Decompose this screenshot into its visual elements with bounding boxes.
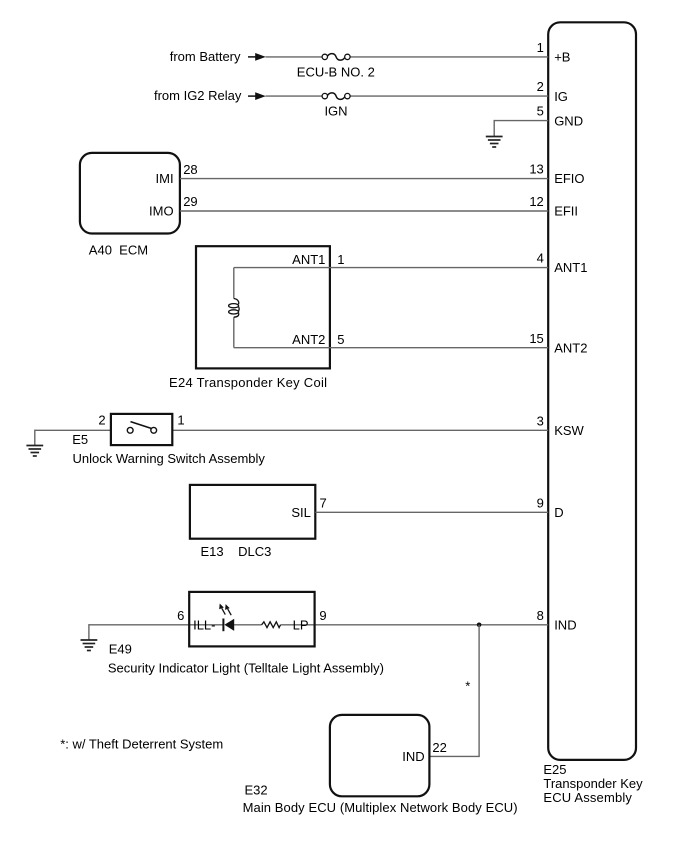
fuse IGN	[322, 93, 350, 100]
pin label KSW	[554, 423, 584, 438]
pin label IND	[554, 617, 576, 632]
footnote w/ Theft Deterrent System	[60, 736, 223, 751]
svg-text:IMO: IMO	[149, 204, 174, 219]
port label IMO	[149, 204, 174, 219]
ECM A40 box	[80, 153, 180, 234]
E13 DLC3 box	[190, 485, 315, 539]
wire SIL pin7 to D pin9	[315, 511, 548, 513]
svg-text:LP: LP	[293, 617, 309, 632]
svg-text:7: 7	[320, 496, 327, 511]
pin number 2	[537, 79, 544, 94]
note asterisk	[465, 679, 470, 694]
svg-text:+B: +B	[554, 50, 570, 65]
pin number 9	[537, 495, 544, 510]
svg-text:13: 13	[529, 162, 543, 177]
wire junction down to E32 IND pin22	[429, 625, 479, 757]
label from Battery	[170, 49, 241, 64]
pin label +B	[554, 50, 570, 65]
label E49	[109, 642, 132, 657]
pin number 12	[529, 194, 543, 209]
svg-text:from Battery: from Battery	[170, 49, 241, 64]
port label IND (E32)	[402, 749, 424, 764]
svg-text:EFIO: EFIO	[554, 171, 584, 186]
svg-text:1: 1	[177, 413, 184, 428]
svg-text:3: 3	[537, 413, 544, 428]
switch contacts	[127, 422, 156, 434]
svg-text:1: 1	[537, 40, 544, 55]
pin number 3	[537, 413, 544, 428]
pin number 5 (E24)	[337, 332, 344, 347]
pin label ANT2 (ECU)	[554, 340, 587, 355]
value label IGN	[324, 103, 347, 118]
wire switch pin1 to KSW pin3	[157, 429, 549, 431]
E32 Main Body ECU box	[330, 715, 430, 796]
svg-text:15: 15	[529, 331, 543, 346]
pin number 6	[177, 608, 184, 623]
svg-text:GND: GND	[554, 113, 583, 128]
svg-text:Transponder Key: Transponder Key	[543, 776, 643, 791]
junction node on IND wire	[477, 623, 482, 628]
label E32	[245, 783, 268, 798]
label Unlock Warning Switch Assembly	[73, 451, 266, 466]
pin label D	[554, 505, 563, 520]
pin number 4	[537, 251, 544, 266]
wire IMO pin29 to EFII pin12	[180, 210, 548, 212]
svg-text:Security Indicator Light (Tell: Security Indicator Light (Telltale Light…	[108, 660, 384, 675]
fuse ECU-B NO. 2	[322, 54, 350, 61]
label E13 DLC3	[201, 544, 272, 559]
ground GND	[486, 137, 503, 148]
pin number 1	[537, 40, 544, 55]
pin number 15	[529, 331, 543, 346]
wire from IG2 Relay to IG pin 2	[266, 95, 549, 97]
wire resistor to IND pin8	[281, 624, 549, 626]
ECU E25 Transponder Key ECU Assembly box	[548, 22, 636, 760]
svg-text:from IG2 Relay: from IG2 Relay	[154, 88, 242, 103]
wire GND pin 5 to ground	[494, 120, 548, 136]
E49 box	[189, 592, 314, 647]
svg-text:28: 28	[183, 162, 197, 177]
value label ECU-B NO. 2	[297, 64, 375, 79]
coil vertical wire	[233, 268, 235, 348]
pin label GND	[554, 113, 583, 128]
pin label IG	[554, 89, 568, 104]
pin number 1 (E5)	[177, 413, 184, 428]
svg-text:KSW: KSW	[554, 423, 584, 438]
pin number 8	[537, 608, 544, 623]
svg-text:1: 1	[337, 252, 344, 267]
svg-text:ANT2: ANT2	[292, 332, 325, 347]
pin label EFIO	[554, 171, 584, 186]
wire ground to switch pin2	[35, 430, 128, 446]
svg-text:Main Body ECU (Multiplex Netwo: Main Body ECU (Multiplex Network Body EC…	[243, 800, 518, 815]
wire ANT1 pin1 to ANT1 pin4	[234, 267, 548, 269]
port label SIL	[291, 505, 311, 520]
label A40 ECM	[89, 242, 148, 257]
svg-text:6: 6	[177, 608, 184, 623]
svg-text:IG: IG	[554, 89, 568, 104]
svg-text:2: 2	[537, 79, 544, 94]
svg-text:IGN: IGN	[324, 103, 347, 118]
resistor R	[262, 622, 281, 628]
label ECU Assembly	[543, 790, 632, 805]
svg-text:5: 5	[537, 104, 544, 119]
wire ANT2 pin5 to ANT2 pin15	[234, 347, 548, 349]
svg-text:*: *	[465, 679, 470, 694]
label Transponder Key	[543, 776, 643, 791]
arrow from IG2 Relay	[248, 92, 266, 100]
svg-text:IND: IND	[554, 617, 576, 632]
svg-text:2: 2	[98, 413, 105, 428]
svg-text:Unlock Warning Switch Assembly: Unlock Warning Switch Assembly	[73, 451, 266, 466]
svg-text:E5: E5	[72, 432, 88, 447]
wire from Battery to +B pin 1	[266, 56, 549, 58]
port label ILL-	[193, 617, 215, 632]
port label IMI	[156, 171, 174, 186]
LED D1	[219, 604, 234, 632]
pin number 1 (E24)	[337, 252, 344, 267]
label E25	[543, 762, 566, 777]
svg-text:8: 8	[537, 608, 544, 623]
label Main Body ECU	[243, 800, 518, 815]
svg-text:ILL-: ILL-	[193, 617, 215, 632]
svg-text:22: 22	[432, 740, 446, 755]
wire ground to ILL- pin6	[89, 624, 224, 640]
svg-text:ANT1: ANT1	[292, 252, 325, 267]
pin number 13	[529, 162, 543, 177]
port label LP	[293, 617, 309, 632]
svg-text:ANT1: ANT1	[554, 260, 587, 275]
svg-text:9: 9	[537, 495, 544, 510]
svg-text:29: 29	[183, 194, 197, 209]
svg-text:12: 12	[529, 194, 543, 209]
pin number 7	[320, 496, 327, 511]
svg-text:ECU-B NO. 2: ECU-B NO. 2	[297, 64, 375, 79]
svg-text:E13 DLC3: E13 DLC3	[201, 544, 272, 559]
svg-text:SIL: SIL	[291, 505, 311, 520]
svg-text:IND: IND	[402, 749, 424, 764]
pin number 29	[183, 194, 197, 209]
label E5	[72, 432, 88, 447]
label Security Indicator Light	[108, 660, 384, 675]
label from IG2 Relay	[154, 88, 242, 103]
svg-text:E25: E25	[543, 762, 566, 777]
inductor coil L	[229, 299, 240, 318]
svg-text:E24 Transponder Key Coil: E24 Transponder Key Coil	[169, 375, 327, 390]
pin label EFII	[554, 204, 578, 219]
pin number 2 (E5)	[98, 413, 105, 428]
pin number 9 (E49)	[319, 608, 326, 623]
wire LED to resistor	[234, 624, 262, 626]
port label ANT1	[292, 252, 325, 267]
svg-text:D: D	[554, 505, 563, 520]
svg-text:IMI: IMI	[156, 171, 174, 186]
ground E49	[81, 640, 98, 651]
wire IMI pin28 to EFIO pin13	[180, 178, 548, 180]
pin number 5	[537, 104, 544, 119]
pin label ANT1 (ECU)	[554, 260, 587, 275]
ground E5	[26, 446, 43, 457]
pin number 22	[432, 740, 446, 755]
svg-text:E32: E32	[245, 783, 268, 798]
switch E5 box	[111, 414, 172, 445]
pin number 28	[183, 162, 197, 177]
label E24 Transponder Key Coil	[169, 375, 327, 390]
svg-text:5: 5	[337, 332, 344, 347]
svg-text:A40 ECM: A40 ECM	[89, 242, 148, 257]
svg-text:E49: E49	[109, 642, 132, 657]
svg-text:4: 4	[537, 251, 544, 266]
arrow from Battery	[248, 53, 266, 61]
svg-text:*: w/ Theft Deterrent System: *: w/ Theft Deterrent System	[60, 736, 223, 751]
svg-text:ECU Assembly: ECU Assembly	[543, 790, 632, 805]
port label ANT2	[292, 332, 325, 347]
E24 Transponder Key Coil box	[196, 246, 330, 368]
svg-text:ANT2: ANT2	[554, 340, 587, 355]
svg-text:EFII: EFII	[554, 204, 578, 219]
svg-text:9: 9	[319, 608, 326, 623]
